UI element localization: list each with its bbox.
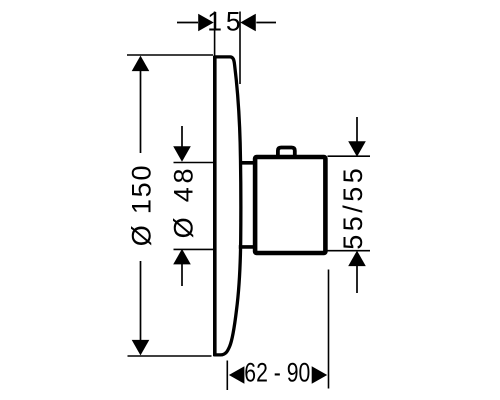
svg-text:15: 15 [207, 6, 244, 36]
svg-text:55/55: 55/55 [338, 168, 368, 250]
knob top tab button [278, 148, 295, 158]
escutcheon plate dome profile [215, 57, 241, 355]
dim Ø150: top arrow [132, 56, 150, 72]
svg-text:Ø 48: Ø 48 [168, 165, 198, 239]
dim 55/55: bottom arrow (up) [348, 251, 366, 267]
svg-text:Ø 150: Ø 150 [127, 164, 157, 247]
escutcheon plate back edge [213, 56, 217, 356]
svg-text:62 - 90: 62 - 90 [244, 358, 310, 388]
dim Ø150: bottom extension line [128, 355, 212, 357]
dim 15: left line [177, 22, 198, 24]
dim Ø150: lower line segment [140, 261, 142, 341]
dim 55/55: top extension line [328, 155, 371, 157]
knob body [255, 157, 325, 253]
dim Ø150: upper line segment [140, 70, 142, 153]
dim 15: right extension line [239, 12, 241, 85]
dim 15: right arrow [240, 14, 256, 32]
dim Ø48: bottom arrow (up) [173, 249, 191, 265]
dim 55/55: bottom extension line [328, 250, 371, 252]
dim 15: left arrow [198, 14, 214, 32]
dim 55/55: lower line segment [356, 265, 358, 293]
dim 15: right line [256, 22, 276, 24]
dim Ø48: upper line segment [181, 126, 183, 148]
dim Ø150: bottom arrow [132, 340, 150, 356]
sleeve bottom edge [239, 245, 256, 249]
sleeve top edge [240, 161, 257, 165]
dim 62-90: right arrow (points right) [312, 366, 328, 384]
dim Ø48: top arrow (down) [173, 146, 191, 162]
dim 15: left extension line [214, 12, 216, 57]
dim 55/55: upper line segment [356, 117, 358, 143]
dim Ø48: lower line segment [181, 264, 183, 287]
dim 62-90: left extension line [226, 361, 228, 391]
dim Ø150: top extension line [127, 54, 213, 56]
dim Ø48: bottom extension line [174, 248, 214, 250]
dim Ø48: top extension line [174, 162, 214, 164]
dim 62-90: left arrow (points left) [229, 366, 245, 384]
dim 62-90: right extension line [328, 270, 330, 389]
dim 55/55: top arrow (down) [348, 141, 366, 157]
